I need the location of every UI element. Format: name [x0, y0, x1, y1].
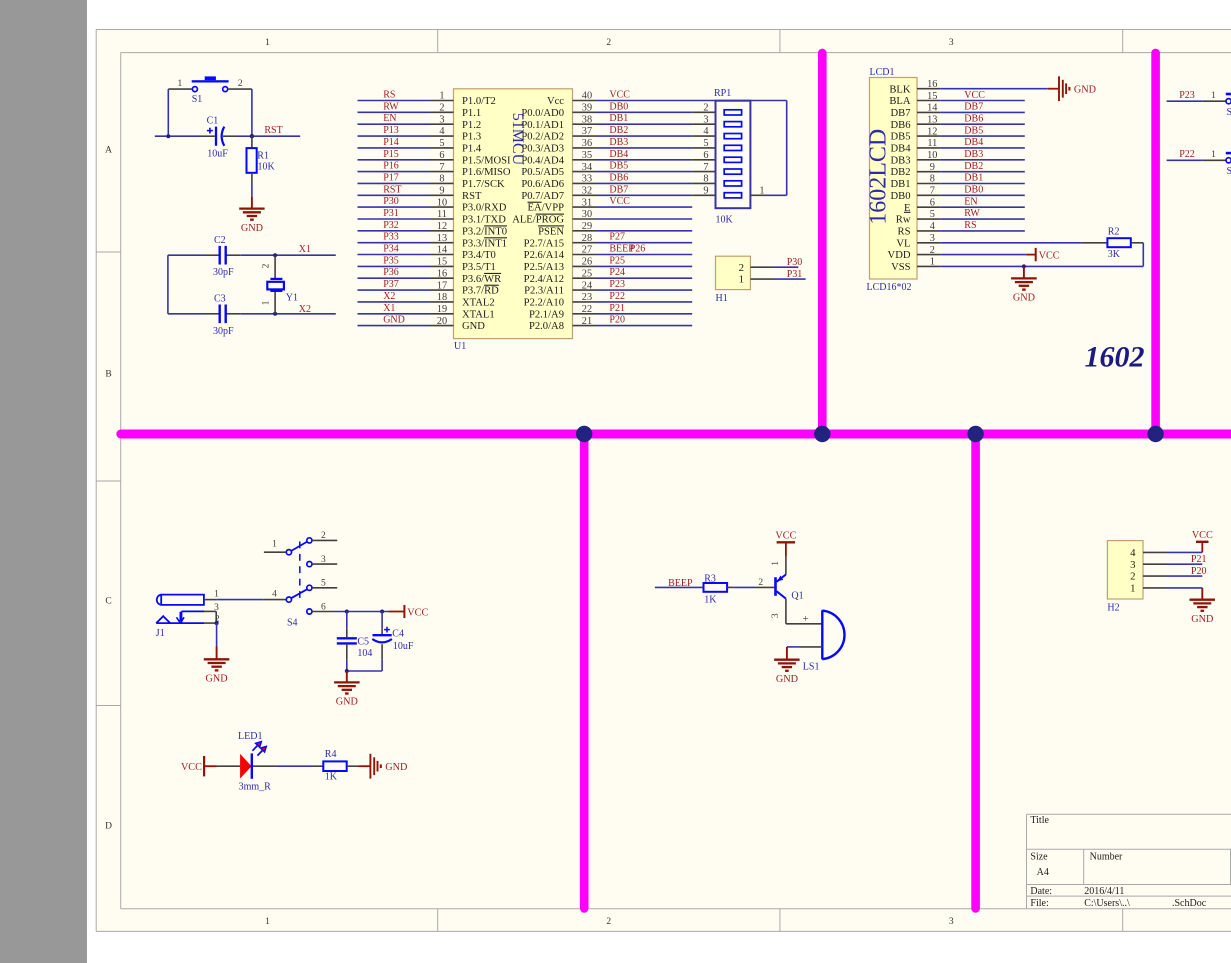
svg-text:2: 2	[238, 79, 243, 89]
svg-text:P1.6/MISO: P1.6/MISO	[462, 167, 511, 178]
svg-text:P31: P31	[383, 208, 399, 219]
svg-text:DB4: DB4	[890, 144, 911, 155]
svg-text:P2.2/A10: P2.2/A10	[524, 298, 564, 309]
svg-text:10K: 10K	[258, 162, 276, 173]
svg-text:16: 16	[437, 268, 447, 279]
svg-text:DB0: DB0	[964, 185, 983, 196]
svg-text:P30: P30	[787, 257, 803, 268]
svg-text:P1.4: P1.4	[462, 144, 482, 155]
svg-text:R1: R1	[257, 151, 269, 162]
svg-text:18: 18	[437, 292, 447, 303]
svg-text:20: 20	[437, 316, 447, 327]
svg-text:DB7: DB7	[964, 102, 983, 113]
svg-text:P3.2/INT0: P3.2/INT0	[462, 226, 507, 237]
svg-text:DB0: DB0	[890, 191, 910, 202]
svg-text:DB7: DB7	[609, 184, 628, 195]
svg-text:LCD16*02: LCD16*02	[867, 282, 912, 293]
svg-text:S4: S4	[287, 618, 298, 629]
svg-text:P3.4/T0: P3.4/T0	[462, 250, 496, 261]
svg-text:BLA: BLA	[889, 96, 911, 107]
svg-text:P0.3/AD3: P0.3/AD3	[521, 144, 564, 155]
svg-text:RST: RST	[383, 184, 401, 195]
svg-text:5: 5	[321, 579, 326, 589]
svg-text:1: 1	[739, 274, 744, 286]
svg-text:X2: X2	[383, 291, 395, 302]
svg-text:15: 15	[437, 257, 447, 268]
svg-text:P1.5/MOSI: P1.5/MOSI	[462, 155, 511, 166]
svg-text:3: 3	[439, 114, 444, 125]
svg-text:5: 5	[439, 138, 444, 149]
svg-text:13: 13	[437, 233, 447, 244]
svg-text:P23: P23	[1179, 90, 1195, 101]
svg-text:X2: X2	[299, 304, 311, 315]
svg-text:1: 1	[771, 561, 781, 566]
svg-text:VCC: VCC	[964, 90, 985, 101]
svg-text:C4: C4	[392, 629, 404, 640]
svg-text:3: 3	[321, 555, 326, 565]
svg-text:+: +	[802, 613, 808, 625]
svg-text:P13: P13	[383, 125, 399, 136]
svg-text:P3.7/RD: P3.7/RD	[462, 286, 499, 297]
svg-text:GND: GND	[1191, 614, 1213, 625]
svg-text:P0.2/AD2: P0.2/AD2	[521, 132, 564, 143]
svg-text:VCC: VCC	[775, 530, 796, 541]
svg-text:P26: P26	[630, 244, 646, 255]
svg-text:P2.6/A14: P2.6/A14	[524, 250, 565, 261]
svg-text:1602LCD: 1602LCD	[866, 129, 892, 225]
svg-text:5: 5	[703, 138, 708, 149]
svg-text:10: 10	[437, 197, 447, 208]
svg-text:P24: P24	[609, 267, 625, 278]
svg-text:P34: P34	[383, 244, 399, 255]
svg-text:E: E	[904, 203, 910, 214]
svg-text:4: 4	[1130, 547, 1136, 559]
svg-text:P17: P17	[383, 172, 399, 183]
svg-text:LED1: LED1	[238, 731, 262, 742]
svg-text:DB7: DB7	[890, 108, 910, 119]
svg-text:19: 19	[437, 304, 447, 315]
svg-text:C:\Users\..\: C:\Users\..\	[1084, 898, 1130, 909]
svg-text:P22: P22	[609, 291, 625, 302]
svg-text:1: 1	[265, 917, 270, 927]
svg-text:P0.4/AD4: P0.4/AD4	[521, 155, 564, 166]
svg-text:H2: H2	[1107, 603, 1119, 614]
svg-text:D: D	[105, 822, 112, 832]
svg-text:P3.6/WR: P3.6/WR	[462, 274, 502, 285]
svg-text:X1: X1	[383, 303, 395, 314]
svg-text:GND: GND	[385, 762, 407, 773]
svg-text:1: 1	[262, 300, 272, 305]
svg-text:12: 12	[437, 221, 447, 232]
svg-text:P0.5/AD5: P0.5/AD5	[521, 167, 564, 178]
svg-text:Size: Size	[1030, 852, 1048, 863]
svg-text:DB6: DB6	[890, 120, 910, 131]
svg-text:VL: VL	[896, 238, 910, 249]
svg-text:VCC: VCC	[1039, 250, 1060, 261]
svg-text:4: 4	[439, 126, 444, 137]
svg-text:GND: GND	[1074, 85, 1096, 96]
svg-text:RST: RST	[264, 125, 282, 136]
svg-text:P3.5/T1: P3.5/T1	[462, 262, 496, 273]
svg-text:10uF: 10uF	[393, 641, 414, 652]
svg-text:DB5: DB5	[890, 132, 910, 143]
svg-text:GND: GND	[241, 223, 263, 234]
svg-text:P0.7/AD7: P0.7/AD7	[521, 191, 564, 202]
svg-text:U1: U1	[454, 341, 466, 352]
svg-text:2016/4/11: 2016/4/11	[1084, 886, 1124, 897]
svg-text:File:: File:	[1030, 898, 1048, 909]
svg-text:DB6: DB6	[609, 172, 628, 183]
svg-text:1: 1	[439, 91, 444, 102]
svg-text:P32: P32	[383, 220, 399, 231]
svg-text:P2.7/A15: P2.7/A15	[524, 238, 564, 249]
svg-text:EA/VPP: EA/VPP	[527, 203, 564, 214]
svg-text:XTAL1: XTAL1	[462, 309, 495, 320]
svg-text:VCC: VCC	[609, 196, 630, 207]
svg-text:P3.1/TXD: P3.1/TXD	[462, 215, 506, 226]
svg-text:GND: GND	[206, 674, 228, 685]
svg-text:9: 9	[703, 186, 708, 197]
svg-text:.SchDoc: .SchDoc	[1172, 898, 1207, 909]
svg-text:VCC: VCC	[1192, 530, 1213, 541]
svg-text:S1: S1	[192, 94, 203, 105]
svg-text:8: 8	[703, 174, 708, 185]
svg-text:P27: P27	[609, 232, 625, 243]
svg-text:C2: C2	[214, 235, 226, 246]
svg-text:1K: 1K	[325, 771, 338, 782]
svg-text:VCC: VCC	[181, 762, 202, 773]
svg-text:DB2: DB2	[609, 125, 628, 136]
svg-text:P22: P22	[1179, 149, 1195, 160]
svg-text:DB3: DB3	[964, 149, 983, 160]
svg-text:2: 2	[703, 103, 708, 114]
svg-text:2: 2	[758, 578, 763, 588]
svg-text:DB2: DB2	[964, 161, 983, 172]
svg-text:BLK: BLK	[889, 84, 911, 95]
svg-text:C1: C1	[207, 115, 219, 126]
svg-text:P1.3: P1.3	[462, 132, 481, 143]
svg-text:2: 2	[439, 103, 444, 114]
svg-text:P21: P21	[1191, 554, 1207, 565]
svg-text:3mm_R: 3mm_R	[239, 782, 272, 793]
svg-text:R4: R4	[325, 749, 337, 760]
svg-text:P3.0/RXD: P3.0/RXD	[462, 203, 507, 214]
svg-text:DB6: DB6	[964, 114, 983, 125]
svg-text:P33: P33	[383, 232, 399, 243]
svg-text:2: 2	[606, 917, 611, 927]
svg-text:1K: 1K	[704, 594, 717, 605]
svg-text:P2.5/A13: P2.5/A13	[524, 262, 564, 273]
svg-text:BEEP: BEEP	[668, 578, 693, 589]
svg-text:10uF: 10uF	[207, 149, 228, 160]
svg-text:DB3: DB3	[890, 155, 910, 166]
svg-text:2: 2	[739, 262, 744, 274]
svg-text:VSS: VSS	[891, 262, 911, 273]
svg-text:2: 2	[321, 531, 326, 541]
svg-text:6: 6	[703, 150, 708, 161]
svg-text:A: A	[105, 146, 112, 156]
svg-text:1: 1	[1130, 583, 1135, 595]
svg-text:P16: P16	[383, 161, 399, 172]
svg-text:P37: P37	[383, 279, 399, 290]
svg-text:P23: P23	[609, 279, 625, 290]
svg-text:P0.6/AD6: P0.6/AD6	[521, 179, 564, 190]
svg-text:2: 2	[262, 263, 272, 268]
svg-text:GND: GND	[462, 321, 485, 332]
svg-text:S: S	[1227, 166, 1231, 177]
svg-text:GND: GND	[776, 674, 798, 685]
svg-text:1: 1	[265, 38, 270, 48]
svg-text:8: 8	[439, 174, 444, 185]
svg-text:RW: RW	[964, 208, 980, 219]
svg-text:P1.2: P1.2	[462, 120, 481, 131]
svg-text:RST: RST	[462, 191, 482, 202]
svg-text:Number: Number	[1090, 852, 1123, 863]
svg-text:4: 4	[703, 126, 708, 137]
svg-text:DB4: DB4	[609, 149, 628, 160]
svg-text:1: 1	[759, 186, 764, 197]
svg-text:1: 1	[214, 590, 219, 600]
svg-text:7: 7	[703, 162, 708, 173]
svg-text:P15: P15	[383, 149, 399, 160]
svg-text:X1: X1	[299, 244, 311, 255]
svg-text:104: 104	[357, 648, 372, 659]
svg-text:1: 1	[178, 79, 183, 89]
svg-text:Vcc: Vcc	[547, 96, 564, 107]
svg-text:P20: P20	[1191, 566, 1207, 577]
svg-text:GND: GND	[336, 697, 358, 708]
svg-text:1: 1	[1211, 91, 1216, 101]
svg-text:P1.7/SCK: P1.7/SCK	[462, 179, 505, 190]
svg-text:2: 2	[1130, 571, 1135, 583]
svg-text:EN: EN	[964, 196, 977, 207]
svg-text:7: 7	[439, 162, 444, 173]
svg-text:Q1: Q1	[791, 590, 803, 601]
svg-text:LCD1: LCD1	[870, 67, 895, 78]
svg-text:DB4: DB4	[964, 137, 983, 148]
svg-text:H1: H1	[716, 293, 728, 304]
svg-text:DB1: DB1	[890, 179, 910, 190]
svg-text:10K: 10K	[716, 215, 734, 226]
svg-text:30pF: 30pF	[213, 326, 234, 337]
svg-text:30pF: 30pF	[213, 267, 234, 278]
svg-text:11: 11	[437, 209, 447, 220]
svg-text:3: 3	[1130, 559, 1135, 571]
svg-text:P1.1: P1.1	[462, 108, 481, 119]
svg-text:P0.1/AD1: P0.1/AD1	[521, 120, 564, 131]
svg-text:P2.4/A12: P2.4/A12	[524, 274, 564, 285]
svg-text:ALE/PROG: ALE/PROG	[512, 215, 564, 226]
svg-text:P14: P14	[383, 137, 399, 148]
svg-text:P25: P25	[609, 255, 625, 266]
svg-text:DB1: DB1	[609, 113, 628, 124]
svg-text:RW: RW	[383, 101, 399, 112]
svg-text:VCC: VCC	[407, 607, 428, 618]
svg-text:C3: C3	[214, 294, 226, 305]
svg-text:R2: R2	[1108, 227, 1120, 238]
svg-text:2: 2	[606, 38, 611, 48]
svg-text:3K: 3K	[1108, 249, 1121, 260]
svg-text:1602: 1602	[1085, 341, 1145, 374]
svg-text:VDD: VDD	[888, 250, 911, 261]
svg-text:9: 9	[439, 186, 444, 197]
svg-text:DB2: DB2	[890, 167, 910, 178]
svg-text:P31: P31	[787, 269, 803, 280]
svg-text:PSEN: PSEN	[538, 226, 564, 237]
svg-text:4: 4	[272, 589, 277, 599]
svg-text:VCC: VCC	[609, 90, 630, 101]
svg-text:P20: P20	[609, 315, 625, 326]
svg-text:3: 3	[771, 613, 781, 618]
svg-text:DB3: DB3	[609, 137, 628, 148]
svg-text:P36: P36	[383, 267, 399, 278]
svg-text:Date:: Date:	[1030, 886, 1052, 897]
svg-text:Title: Title	[1030, 815, 1049, 826]
svg-text:RS: RS	[898, 227, 911, 238]
svg-text:GND: GND	[1013, 293, 1035, 304]
svg-text:B: B	[105, 369, 111, 379]
svg-text:3: 3	[949, 917, 954, 927]
svg-text:Y1: Y1	[286, 292, 298, 303]
svg-text:RS: RS	[383, 90, 395, 101]
svg-text:P0.0/AD0: P0.0/AD0	[521, 108, 564, 119]
svg-text:EN: EN	[383, 113, 396, 124]
svg-text:6: 6	[439, 150, 444, 161]
svg-text:C5: C5	[357, 637, 369, 648]
svg-text:P2.0/A8: P2.0/A8	[529, 321, 564, 332]
svg-text:S: S	[1227, 107, 1231, 118]
svg-text:Rw: Rw	[896, 215, 911, 226]
svg-text:DB1: DB1	[964, 173, 983, 184]
svg-text:3: 3	[949, 38, 954, 48]
svg-text:C: C	[105, 596, 111, 606]
svg-text:RP1: RP1	[714, 88, 731, 99]
svg-text:LS1: LS1	[803, 661, 820, 672]
svg-text:XTAL2: XTAL2	[462, 298, 495, 309]
svg-text:R3: R3	[704, 573, 716, 584]
svg-text:DB0: DB0	[609, 101, 628, 112]
svg-text:17: 17	[437, 280, 447, 291]
svg-text:14: 14	[437, 245, 447, 256]
svg-text:GND: GND	[383, 315, 405, 326]
svg-text:P35: P35	[383, 255, 399, 266]
svg-text:P30: P30	[383, 196, 399, 207]
svg-text:P1.0/T2: P1.0/T2	[462, 96, 496, 107]
svg-text:DB5: DB5	[964, 125, 983, 136]
svg-text:A4: A4	[1037, 867, 1049, 878]
svg-text:RS: RS	[964, 220, 976, 231]
svg-text:1: 1	[272, 539, 277, 549]
svg-text:P3.3/INT1: P3.3/INT1	[462, 238, 507, 249]
svg-text:3: 3	[703, 114, 708, 125]
svg-text:P2.1/A9: P2.1/A9	[529, 309, 564, 320]
svg-text:J1: J1	[156, 628, 165, 639]
svg-text:P2.3/A11: P2.3/A11	[524, 286, 564, 297]
svg-text:P21: P21	[609, 303, 625, 314]
svg-text:1: 1	[1211, 150, 1216, 160]
svg-text:DB5: DB5	[609, 161, 628, 172]
